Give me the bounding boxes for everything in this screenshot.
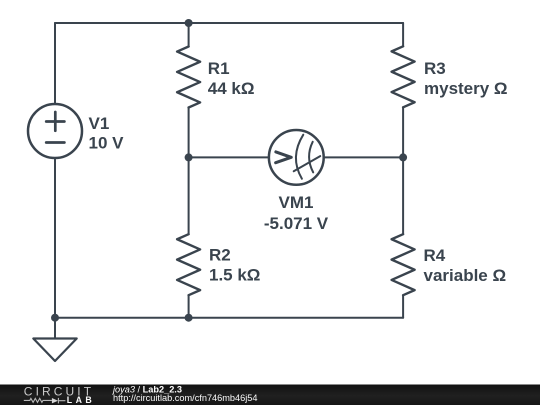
voltmeter VM1 bbox=[269, 130, 324, 185]
wire top horizontal bbox=[55, 22, 403, 24]
svg-text:-5.071 V: -5.071 V bbox=[264, 214, 329, 233]
node mid-left junction bbox=[185, 153, 193, 161]
wire R2 top lead bbox=[188, 157, 190, 234]
node top junction bbox=[185, 19, 193, 27]
logo diode triangle bbox=[52, 398, 58, 403]
svg-text:44 kΩ: 44 kΩ bbox=[208, 79, 255, 98]
svg-text:R2: R2 bbox=[209, 246, 231, 265]
wire R2 bottom lead bbox=[188, 295, 190, 318]
svg-text:mystery Ω: mystery Ω bbox=[424, 79, 508, 98]
ground bbox=[33, 339, 76, 362]
node mid-right junction bbox=[399, 153, 407, 161]
wire VM1 right bbox=[324, 156, 403, 158]
resistor R3 bbox=[392, 46, 415, 107]
node bottom-mid junction bbox=[185, 314, 193, 322]
wire R3 bottom lead bbox=[402, 107, 404, 157]
logo resistor squiggle and diode bbox=[24, 398, 66, 404]
footer bar bbox=[0, 385, 540, 405]
resistor R1 bbox=[177, 47, 200, 108]
svg-text:1.5 kΩ: 1.5 kΩ bbox=[209, 266, 260, 285]
resistor R2 bbox=[177, 234, 200, 295]
wire left vertical top bbox=[54, 23, 56, 104]
svg-text:variable Ω: variable Ω bbox=[424, 266, 507, 285]
wire bottom horizontal bbox=[55, 317, 403, 319]
wire left vertical bottom bbox=[54, 158, 56, 318]
svg-text:R3: R3 bbox=[424, 59, 446, 78]
wire R3 top lead bbox=[402, 23, 404, 46]
svg-text:LAB: LAB bbox=[67, 395, 95, 405]
svg-text:R1: R1 bbox=[208, 59, 230, 78]
resistor R4 bbox=[392, 234, 415, 295]
node bottom-left junction bbox=[51, 314, 59, 322]
wire R4 bottom lead bbox=[402, 295, 404, 318]
svg-text:R4: R4 bbox=[424, 246, 446, 265]
voltage source V1 bbox=[28, 104, 82, 158]
svg-text:VM1: VM1 bbox=[279, 193, 314, 212]
wire ground stub bbox=[54, 318, 56, 339]
wire R1 bottom lead bbox=[188, 108, 190, 158]
svg-text:10 V: 10 V bbox=[89, 134, 125, 153]
wire R1 top lead bbox=[188, 23, 190, 47]
wire VM1 left bbox=[189, 156, 269, 158]
wire R4 top lead bbox=[402, 157, 404, 234]
svg-text:V1: V1 bbox=[89, 114, 110, 133]
svg-text:http://circuitlab.com/cfn746mb: http://circuitlab.com/cfn746mb46j54 bbox=[113, 393, 258, 403]
